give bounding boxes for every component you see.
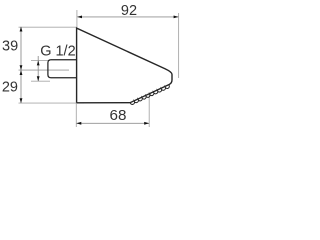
dimension line G 1/2 vertical xyxy=(37,56,39,81)
dimension line 68 horizontal xyxy=(77,122,150,124)
svg-text:G 1/2: G 1/2 xyxy=(40,43,75,59)
extension line connector top edge left (G 1/2 top) xyxy=(31,60,50,62)
arrow 29 top up xyxy=(20,70,23,75)
extension line above body top-left corner (92 dim left) xyxy=(76,10,78,28)
svg-text:68: 68 xyxy=(110,107,127,124)
extension line centerline of connector (39/29 junction) xyxy=(19,69,70,71)
extension line connector bottom (G 1/2 bottom) xyxy=(31,80,50,82)
svg-text:92: 92 xyxy=(121,3,137,19)
shower head body outline xyxy=(77,28,172,103)
extension line from spray face (68 dim right) xyxy=(148,94,150,127)
extension line bottom-left horizontal (29 dim bottom) xyxy=(19,102,77,104)
arrow 92 right xyxy=(174,16,179,19)
dimension line 92 horizontal xyxy=(78,16,179,18)
extension line right of body (92 dim right) xyxy=(178,13,180,78)
connector G1/2 thread pipe xyxy=(48,60,77,78)
arrow 92 left xyxy=(77,16,82,19)
arrow 39 top up xyxy=(20,27,23,32)
arrow G top up xyxy=(37,61,40,66)
arrow G bottom down xyxy=(37,76,40,81)
extension line below body bottom-left corner (68 dim left) xyxy=(75,103,77,127)
scallop nozzles on spray face xyxy=(130,85,169,105)
svg-text:29: 29 xyxy=(2,80,18,96)
dimension line 39/29 chain vertical xyxy=(20,27,22,103)
arrow 39 bottom down xyxy=(20,65,23,70)
arrow 68 left xyxy=(76,122,81,125)
svg-text:39: 39 xyxy=(2,39,18,55)
arrow 68 right xyxy=(144,122,149,125)
extension line top-left horizontal (39 dim top) xyxy=(19,26,77,28)
arrow 29 bottom down xyxy=(20,98,23,103)
